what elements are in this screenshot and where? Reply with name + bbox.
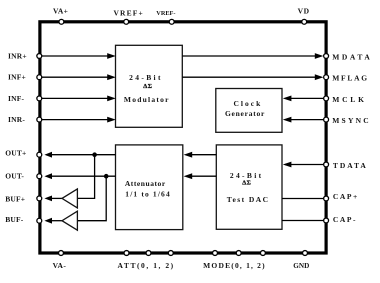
- svg-text:VREF-: VREF-: [156, 10, 175, 17]
- svg-text:24-Bit: 24-Bit: [230, 171, 264, 180]
- svg-text:ΔΣ: ΔΣ: [143, 83, 152, 90]
- svg-text:INR+: INR+: [8, 52, 27, 61]
- svg-text:TDATA: TDATA: [333, 161, 368, 170]
- svg-text:BUF+: BUF+: [5, 194, 25, 203]
- svg-text:OUT-: OUT-: [5, 171, 24, 180]
- svg-text:INF-: INF-: [8, 94, 25, 103]
- svg-text:MDATA: MDATA: [332, 52, 372, 61]
- svg-text:ATT(0, 1, 2): ATT(0, 1, 2): [117, 261, 174, 270]
- svg-text:Generator: Generator: [225, 109, 265, 118]
- svg-text:GND: GND: [293, 262, 309, 270]
- svg-text:CAP+: CAP+: [333, 192, 359, 201]
- svg-text:VA+: VA+: [53, 7, 68, 16]
- svg-text:Test DAC: Test DAC: [227, 195, 270, 204]
- svg-text:OUT+: OUT+: [5, 149, 26, 158]
- svg-text:INF+: INF+: [8, 73, 26, 82]
- svg-text:VREF+: VREF+: [113, 9, 143, 18]
- svg-text:BUF-: BUF-: [5, 215, 24, 224]
- svg-text:VA-: VA-: [53, 261, 67, 270]
- svg-text:VD: VD: [298, 7, 310, 16]
- svg-text:ΔΣ: ΔΣ: [242, 180, 251, 187]
- svg-text:MCLK: MCLK: [332, 95, 367, 104]
- svg-text:MFLAG: MFLAG: [332, 74, 369, 83]
- svg-text:Attenuator: Attenuator: [125, 179, 166, 188]
- svg-text:CAP-: CAP-: [333, 215, 357, 224]
- svg-text:Clock: Clock: [234, 99, 263, 108]
- svg-text:MSYNC: MSYNC: [332, 116, 371, 125]
- svg-text:24-Bit: 24-Bit: [129, 73, 163, 82]
- svg-text:INR-: INR-: [8, 115, 25, 124]
- svg-text:1/1 to 1/64: 1/1 to 1/64: [125, 189, 171, 198]
- svg-text:MODE(0, 1, 2): MODE(0, 1, 2): [203, 261, 266, 270]
- svg-text:Modulator: Modulator: [124, 95, 170, 104]
